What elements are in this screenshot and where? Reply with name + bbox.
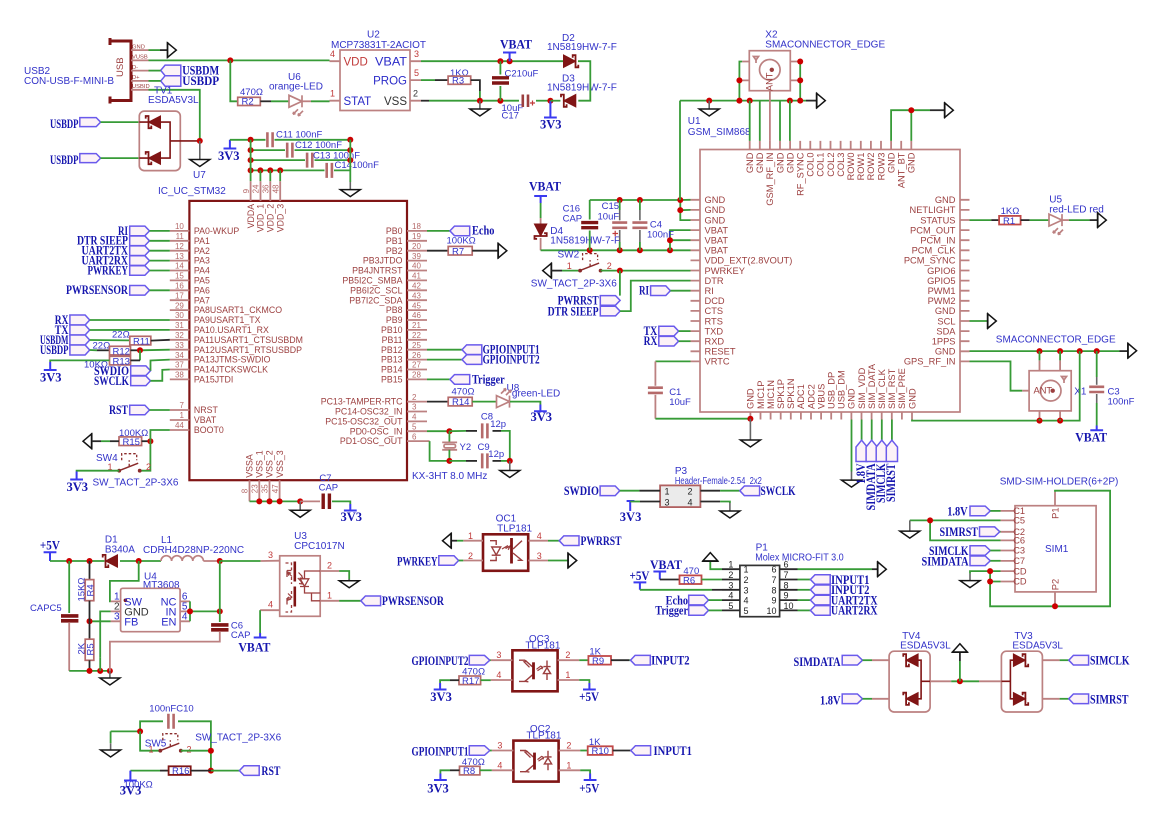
supply VBAT	[238, 633, 271, 655]
svg-text:SIMRST: SIMRST	[1090, 692, 1129, 706]
svg-text:6: 6	[771, 565, 776, 575]
IC OC3 body	[491, 650, 579, 691]
svg-text:4: 4	[330, 49, 335, 59]
svg-text:PA10.USART1_RX: PA10.USART1_RX	[194, 325, 269, 335]
svg-text:45: 45	[412, 301, 421, 310]
net flag PWRSENSOR	[339, 594, 445, 608]
svg-text:COL1: COL1	[816, 153, 826, 177]
svg-text:VBAT: VBAT	[1075, 431, 1108, 445]
net flag Echo	[427, 224, 494, 238]
svg-text:13: 13	[175, 252, 184, 261]
svg-text:ADC1: ADC1	[796, 384, 806, 409]
svg-text:GND: GND	[886, 152, 896, 173]
switch SW4	[93, 453, 179, 489]
svg-text:EN: EN	[161, 616, 176, 628]
svg-text:11: 11	[176, 232, 185, 241]
wire R13 left to 3V3	[50, 360, 109, 362]
svg-text:2: 2	[468, 551, 473, 561]
svg-text:VBAT: VBAT	[238, 641, 271, 655]
svg-text:CD: CD	[1013, 566, 1027, 576]
svg-text:P1: P1	[1050, 508, 1060, 519]
svg-text:46: 46	[412, 311, 421, 320]
supply VBAT + resistor R6 470	[650, 558, 722, 586]
svg-text:VBAT: VBAT	[705, 246, 729, 256]
svg-text:VDD_3: VDD_3	[275, 204, 285, 232]
supply VBAT	[500, 38, 533, 62]
svg-text:35: 35	[261, 484, 270, 493]
connector SIM1 body	[1001, 492, 1097, 606]
wire D2-D3 right side	[578, 61, 590, 100]
wire USBDP to R12	[90, 349, 97, 351]
svg-text:SIMDATA: SIMDATA	[922, 555, 969, 569]
LED U8 green-LED	[472, 383, 560, 408]
svg-text:4: 4	[497, 760, 502, 770]
net flag Trigger	[655, 604, 722, 618]
resistor R14 470	[427, 387, 474, 409]
svg-text:9: 9	[784, 591, 789, 601]
svg-text:23: 23	[251, 484, 260, 493]
wire pin4 to VBAT	[259, 610, 261, 633]
svg-text:SW2: SW2	[558, 250, 580, 261]
wire USBDM to R11	[90, 339, 130, 341]
supply +5V	[579, 683, 599, 704]
svg-text:GND: GND	[705, 215, 726, 225]
svg-text:14: 14	[175, 262, 184, 271]
gnd arrow	[1120, 343, 1137, 359]
vertical net flag SIMCLK	[874, 420, 888, 504]
net flag RST	[211, 764, 281, 778]
svg-text:+5V: +5V	[630, 569, 650, 583]
svg-text:PA0-WKUP: PA0-WKUP	[194, 226, 239, 236]
svg-text:2: 2	[413, 89, 418, 99]
svg-text:16: 16	[175, 282, 184, 291]
svg-text:1: 1	[567, 261, 572, 271]
svg-text:15: 15	[175, 272, 184, 281]
svg-text:GND: GND	[705, 205, 726, 215]
wire VBAT net	[421, 60, 563, 62]
svg-text:5: 5	[728, 601, 733, 611]
svg-text:100nF: 100nF	[1108, 397, 1135, 408]
gnd arrow right of bus	[806, 93, 825, 109]
svg-text:SW_TACT_2P-3X6: SW_TACT_2P-3X6	[195, 732, 281, 743]
svg-text:SIM_RST: SIM_RST	[887, 368, 897, 409]
svg-text:4: 4	[728, 591, 733, 601]
svg-text:C7: C7	[1013, 556, 1025, 566]
net flag PWRKEY	[397, 555, 463, 569]
svg-text:18: 18	[412, 222, 421, 231]
svg-text:ANT: ANT	[764, 72, 774, 91]
svg-text:3V3: 3V3	[531, 410, 553, 424]
wire GND net to arrow (X1 top rail)	[970, 350, 1120, 352]
svg-text:3V3: 3V3	[427, 781, 449, 795]
svg-text:PA5: PA5	[194, 276, 210, 286]
wire junction down to R13	[139, 350, 141, 360]
wire pin2 to gnd	[339, 571, 359, 588]
ground rail bottom	[69, 670, 110, 672]
svg-text:3: 3	[412, 403, 417, 412]
svg-text:29: 29	[175, 301, 184, 310]
ground	[699, 101, 719, 116]
svg-text:VSS: VSS	[384, 96, 407, 108]
STM32 top pins 9 VDDA / 24 VDD_1 / 36 VDD_2 / 48 VDD_3	[242, 181, 286, 232]
wire X1 top pins to GND rail	[1040, 351, 1061, 360]
svg-text:36: 36	[262, 184, 271, 193]
svg-text:PA2: PA2	[194, 246, 210, 256]
svg-text:31: 31	[175, 321, 184, 330]
net flag USBDP	[40, 343, 90, 357]
svg-text:C1: C1	[1013, 506, 1025, 516]
svg-text:orange-LED: orange-LED	[269, 82, 323, 93]
svg-text:GND: GND	[907, 152, 917, 173]
svg-text:PC14-OSC32_IN: PC14-OSC32_IN	[335, 407, 402, 417]
wire to R2	[230, 60, 237, 101]
svg-text:1.8V: 1.8V	[947, 505, 968, 519]
LED U6 orange-LED	[269, 72, 323, 116]
gnd arrow after R7	[498, 243, 507, 259]
wire R2 to U6	[260, 100, 271, 102]
svg-text:R10: R10	[592, 746, 609, 757]
svg-text:27: 27	[412, 361, 421, 370]
svg-text:U2: U2	[367, 30, 380, 41]
net flag USBDP (left, to TV1 top)	[50, 117, 139, 131]
svg-text:R9: R9	[592, 656, 604, 667]
net flag USBDP	[149, 74, 220, 88]
svg-text:5: 5	[412, 422, 417, 431]
wire TV4-TV3 middle + gnd arrow up	[930, 644, 1001, 685]
wire GSM_RF_IN to X2	[769, 91, 771, 141]
svg-text:GPIO6: GPIO6	[927, 266, 955, 276]
svg-text:green-LED: green-LED	[512, 388, 560, 399]
wire R13 right	[131, 359, 141, 361]
svg-text:3: 3	[268, 550, 273, 560]
svg-text:VSS_1: VSS_1	[255, 450, 265, 477]
svg-text:1: 1	[330, 89, 335, 99]
svg-text:33: 33	[175, 341, 184, 350]
svg-text:USB: USB	[115, 57, 126, 77]
svg-text:PB2: PB2	[386, 246, 403, 256]
capacitor C12 100nF	[251, 140, 351, 158]
wire X1 bottom pins join	[1040, 419, 1061, 421]
svg-text:GPIOINPUT1: GPIOINPUT1	[412, 744, 469, 758]
supply 3V3	[120, 771, 142, 798]
gnd arrow after U5	[1098, 212, 1107, 228]
svg-text:COL0: COL0	[806, 153, 816, 177]
svg-text:2: 2	[607, 261, 612, 271]
svg-text:2: 2	[187, 744, 192, 754]
svg-text:PD1-OSC_OUT: PD1-OSC_OUT	[340, 436, 403, 446]
svg-text:RXD: RXD	[705, 337, 725, 347]
svg-text:ROW1: ROW1	[856, 153, 866, 181]
wire ANT_BT net	[891, 110, 930, 141]
connector J: USB2 CON-USB-F-MINI-B	[110, 38, 150, 104]
svg-text:ANT_BT: ANT_BT	[897, 152, 907, 188]
wire arrow to R15	[92, 440, 101, 442]
svg-text:GPIO5: GPIO5	[927, 276, 955, 286]
svg-text:SIM_CLK: SIM_CLK	[877, 368, 887, 409]
svg-text:U1: U1	[688, 116, 701, 127]
svg-text:PWRSENSOR: PWRSENSOR	[382, 594, 445, 608]
svg-text:3: 3	[728, 580, 733, 590]
wire GND pin down	[100, 611, 110, 657]
wire U6 to U2 STAT	[302, 100, 311, 102]
svg-text:1: 1	[565, 670, 570, 680]
svg-text:PB14: PB14	[381, 365, 403, 375]
svg-text:3V3: 3V3	[67, 480, 89, 494]
svg-text:PB4JNTRST: PB4JNTRST	[352, 266, 403, 276]
supply 3V3	[427, 774, 449, 796]
svg-text:VDD_EXT(2.8VOUT): VDD_EXT(2.8VOUT)	[705, 256, 793, 266]
svg-text:PCM_OUT: PCM_OUT	[910, 225, 956, 235]
svg-text:VRTC: VRTC	[705, 357, 730, 367]
wire GND bottom pin to ground	[851, 420, 853, 472]
svg-text:SIM1: SIM1	[1045, 544, 1069, 555]
supply +5V to pin3	[630, 569, 723, 590]
wire R11 to PA11	[151, 339, 170, 342]
net flag PWRKEY	[88, 263, 170, 277]
gnd arrow ANT_BT	[930, 102, 953, 118]
svg-text:9: 9	[771, 596, 776, 606]
resistor R4 15K	[77, 561, 97, 621]
svg-text:2: 2	[327, 561, 332, 571]
net flag SIMDATA (TV4 in)	[794, 655, 890, 669]
svg-text:32: 32	[175, 331, 184, 340]
net flag SIMRST (TV3 out)	[1042, 692, 1129, 706]
diode D3 1N5819HW-7-F	[547, 74, 617, 107]
IC U3 CPC1017N	[260, 531, 345, 616]
svg-text:GND: GND	[132, 44, 145, 50]
svg-text:12: 12	[175, 242, 184, 251]
ground	[500, 461, 520, 478]
svg-text:CAP: CAP	[319, 483, 339, 494]
svg-text:INPUT2: INPUT2	[651, 654, 690, 668]
STM32 left pins PA0..PA15 NRST VBAT BOOT0	[170, 222, 303, 435]
connector X2 body	[742, 51, 797, 91]
svg-text:17: 17	[175, 291, 184, 300]
svg-text:GSM_RF_IN: GSM_RF_IN	[765, 153, 775, 206]
svg-text:3V3: 3V3	[430, 690, 452, 704]
svg-text:100KΩ: 100KΩ	[447, 236, 476, 247]
net flag DTR SIEEP	[548, 281, 691, 319]
svg-text:8: 8	[241, 488, 250, 493]
capacitor C13 100nF	[251, 150, 361, 167]
capacitor C21 0uF	[492, 61, 539, 100]
diode D2 1N5819HW-7-F	[547, 33, 617, 67]
svg-text:Trigger: Trigger	[472, 372, 505, 386]
svg-text:SIMRST: SIMRST	[884, 463, 898, 502]
svg-text:R2: R2	[242, 97, 254, 108]
svg-text:30: 30	[175, 311, 184, 320]
svg-text:CAP: CAP	[563, 214, 583, 225]
net flag GPIOINPUT1	[427, 343, 540, 357]
svg-text:3V3: 3V3	[540, 118, 562, 132]
resistor R15 100K	[119, 428, 148, 448]
svg-text:GND: GND	[935, 195, 956, 205]
capacitor C17 10uF polarized	[502, 95, 551, 122]
svg-text:TLP181: TLP181	[497, 524, 532, 535]
supply 3V3	[531, 405, 553, 425]
junction dots on cap rails	[248, 137, 254, 143]
svg-text:PA11USART1_CTSUSBDM: PA11USART1_CTSUSBDM	[194, 335, 303, 345]
ground under U1	[740, 419, 760, 447]
junction	[227, 57, 233, 63]
svg-text:GND: GND	[935, 347, 956, 357]
wire VSS net	[421, 100, 429, 102]
wire vertical join	[251, 140, 351, 182]
supply +5V	[579, 774, 599, 796]
svg-text:VSS_3: VSS_3	[275, 450, 285, 477]
svg-text:FB: FB	[124, 616, 138, 628]
U1 left pins	[691, 195, 793, 367]
svg-text:PWRKEY: PWRKEY	[397, 555, 438, 569]
wire SCL + gnd arrow	[970, 313, 997, 329]
svg-text:STATUS: STATUS	[920, 215, 955, 225]
svg-text:8: 8	[771, 585, 776, 595]
net flag USBDM	[40, 333, 90, 347]
svg-text:PA3: PA3	[194, 256, 210, 266]
svg-text:Y2: Y2	[460, 442, 472, 453]
svg-text:R11: R11	[133, 336, 150, 347]
svg-text:2: 2	[688, 487, 693, 497]
svg-text:C6: C6	[1013, 536, 1025, 546]
svg-text:38: 38	[175, 371, 184, 380]
svg-text:12p: 12p	[490, 419, 506, 430]
svg-text:SIM_PRE: SIM_PRE	[897, 368, 907, 409]
svg-text:470Ω: 470Ω	[452, 387, 475, 398]
capacitor C16 CAP	[563, 200, 599, 250]
svg-text:VBAT: VBAT	[375, 57, 407, 69]
wire TX to PA10	[90, 329, 170, 331]
svg-text:red-LED red: red-LED red	[1049, 205, 1103, 216]
svg-text:12p: 12p	[488, 449, 504, 460]
svg-text:1PPS: 1PPS	[932, 337, 956, 347]
wire GPS_RF_IN to X1	[970, 361, 1023, 390]
net flag SWDIO	[564, 484, 660, 498]
svg-text:SPK1N: SPK1N	[786, 379, 796, 410]
wire pin1 to +5V	[579, 680, 589, 683]
svg-text:PB9: PB9	[386, 315, 403, 325]
capacitor C3 100nF	[1089, 351, 1134, 425]
wire X2 left pins	[739, 62, 742, 101]
wire CD pins to gnd	[970, 571, 1001, 581]
IC U4 MT3608	[111, 572, 190, 632]
svg-text:SWCLK: SWCLK	[761, 484, 796, 498]
svg-text:3V3: 3V3	[218, 149, 240, 163]
net flag RX	[644, 334, 691, 348]
svg-text:8: 8	[784, 580, 789, 590]
net flag INPUT2	[629, 654, 689, 668]
net flag RI	[639, 284, 691, 298]
svg-text:CDRH4D28NP-220NC: CDRH4D28NP-220NC	[143, 545, 244, 556]
svg-text:CAP: CAP	[231, 630, 251, 641]
wire pin4 to gnd	[700, 501, 720, 503]
LED U5 red-LED	[1049, 195, 1104, 235]
svg-text:VBAT: VBAT	[500, 38, 533, 52]
svg-text:R8: R8	[463, 766, 475, 777]
wire VUSB net	[149, 59, 330, 61]
supply 3V3	[341, 504, 363, 524]
svg-text:GND: GND	[785, 152, 795, 173]
svg-text:PROG: PROG	[373, 75, 407, 87]
svg-text:3V3: 3V3	[620, 510, 642, 524]
svg-text:VBAT: VBAT	[194, 415, 217, 425]
svg-text:SPK1P: SPK1P	[776, 379, 786, 409]
svg-text:25: 25	[412, 341, 421, 350]
crystal circuit: wire PD0	[427, 430, 449, 432]
svg-text:GND: GND	[705, 195, 726, 205]
wire USBID down to TV1/U7	[149, 90, 200, 141]
resistor R17 470	[440, 666, 491, 687]
svg-text:USBDP: USBDP	[50, 117, 79, 131]
svg-text:SMACONNECTOR_EDGE: SMACONNECTOR_EDGE	[765, 40, 885, 51]
svg-text:GND: GND	[935, 306, 956, 316]
svg-text:3: 3	[414, 49, 419, 59]
svg-text:PA9USART1_TX: PA9USART1_TX	[194, 315, 261, 325]
svg-text:R14: R14	[452, 397, 469, 408]
svg-text:CTS: CTS	[705, 306, 724, 316]
svg-text:VDD: VDD	[344, 57, 368, 69]
svg-text:2: 2	[744, 575, 749, 585]
net flag RI	[118, 224, 170, 238]
ground U7	[190, 141, 210, 181]
svg-text:4: 4	[744, 596, 749, 606]
svg-text:NETLIGHT: NETLIGHT	[910, 205, 956, 215]
net flag 1.8V	[947, 505, 1000, 519]
wire GND top rail	[590, 200, 691, 220]
svg-text:43: 43	[412, 291, 421, 300]
net flag USBDP (left, to TV1 bottom)	[50, 153, 139, 167]
crystal Y2	[442, 431, 471, 461]
svg-text:40: 40	[412, 262, 421, 271]
svg-text:USBDP: USBDP	[50, 153, 79, 167]
svg-text:CD: CD	[1013, 577, 1027, 587]
svg-text:VBAT: VBAT	[650, 558, 683, 572]
svg-text:R5: R5	[86, 643, 97, 655]
svg-text:VSSA: VSSA	[245, 454, 255, 478]
svg-text:KX-3HT 8.0 MHz: KX-3HT 8.0 MHz	[412, 471, 487, 482]
capacitor C1 10uF at VRTC	[648, 361, 751, 418]
svg-text:1: 1	[566, 760, 571, 770]
wire IN/EN join to C6	[190, 601, 220, 621]
diode array TV1	[139, 111, 200, 171]
svg-text:4: 4	[182, 611, 188, 622]
svg-text:+5V: +5V	[40, 539, 60, 553]
resistor R7 100K	[427, 236, 498, 258]
resistor R10 1K	[580, 737, 631, 757]
svg-text:D+: D+	[132, 75, 140, 81]
wire D1 to L1	[120, 560, 161, 562]
svg-text:USBID: USBID	[132, 84, 150, 90]
svg-text:2: 2	[566, 741, 571, 751]
svg-text:PWRKEY: PWRKEY	[88, 263, 129, 277]
supply 3V3	[67, 472, 89, 495]
svg-text:3V3: 3V3	[40, 371, 62, 385]
svg-text:47: 47	[271, 484, 280, 493]
svg-text:21: 21	[412, 321, 421, 330]
svg-text:GND: GND	[775, 152, 785, 173]
wire PD1 to bottom rail	[427, 440, 430, 442]
wire GND pins down to U1	[750, 101, 790, 141]
supply 3V3	[40, 362, 62, 385]
wire R15 to BOOT0 and SW4	[142, 440, 151, 442]
svg-text:PCM_IN: PCM_IN	[920, 236, 955, 246]
svg-text:C14100nF: C14100nF	[335, 160, 380, 171]
svg-text:R16: R16	[172, 766, 189, 777]
capacitor C9 12p	[449, 442, 509, 469]
vertical net flag SIMRST	[884, 420, 898, 503]
svg-text:SIM_VDD: SIM_VDD	[857, 367, 867, 409]
wire pin6 to gnd arrow	[798, 561, 887, 577]
svg-text:ROW0: ROW0	[846, 153, 856, 181]
